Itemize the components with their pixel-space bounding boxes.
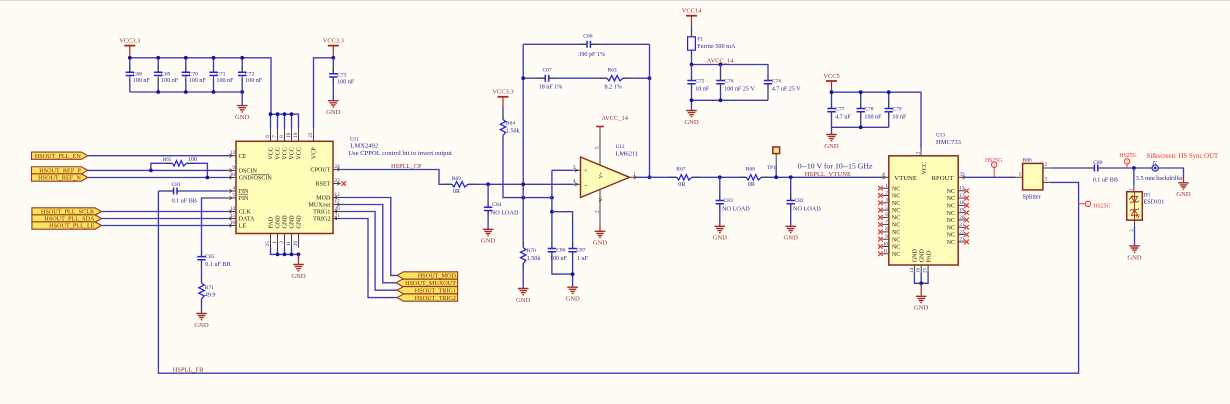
svg-text:26: 26 — [293, 241, 299, 247]
ground cap bank — [241, 92, 243, 106]
svg-text:GND: GND — [283, 215, 289, 229]
svg-text:R67: R67 — [676, 167, 685, 173]
svg-text:C67: C67 — [543, 67, 552, 73]
svg-text:VCC5: VCC5 — [823, 73, 839, 80]
pin 3 GND — [284, 234, 286, 248]
svg-text:LMX2492: LMX2492 — [350, 142, 378, 149]
svg-text:GND: GND — [1127, 254, 1142, 261]
pin 9 NC left — [882, 238, 889, 240]
svg-text:RSET: RSET — [315, 182, 330, 188]
svg-text:R70: R70 — [527, 248, 536, 254]
svg-text:D5: D5 — [1143, 192, 1150, 198]
wire RFOUT — [965, 176, 1015, 178]
pin 23 RSET no-connect X — [341, 181, 346, 186]
port HS25G out — [1124, 159, 1129, 164]
svg-text:NO LOAD: NO LOAD — [793, 206, 821, 213]
svg-text:CLK: CLK — [239, 210, 252, 216]
resistor R67 — [677, 175, 692, 180]
node vcc bus — [283, 112, 287, 116]
svg-text:C77: C77 — [835, 107, 844, 113]
pin 23 RSET — [333, 183, 341, 185]
node fb right — [648, 76, 652, 80]
wire J7 shield — [1158, 168, 1183, 177]
pin 13 NC right — [958, 190, 965, 192]
ground AVCC — [686, 111, 697, 117]
svg-text:CE: CE — [239, 154, 247, 160]
svg-text:100 nF: 100 nF — [133, 78, 151, 84]
svg-text:HMC733: HMC733 — [936, 139, 962, 146]
port HSOUT_MUXOUT — [396, 279, 458, 286]
power AVCC_14 opamp — [599, 127, 601, 129]
pin 9 OSCIN — [229, 169, 237, 171]
svg-text:23: 23 — [335, 178, 341, 184]
wire vcc pin — [270, 114, 272, 129]
svg-text:22: 22 — [959, 230, 965, 235]
pin 16 LE — [229, 225, 237, 227]
svg-text:GND: GND — [276, 215, 282, 229]
svg-text:100 nF: 100 nF — [550, 256, 568, 262]
svg-text:1.50k: 1.50k — [506, 128, 521, 134]
svg-text:VCC: VCC — [269, 147, 275, 160]
svg-text:NC: NC — [892, 194, 900, 200]
svg-text:VCC3.3: VCC3.3 — [323, 37, 344, 44]
ferrite F1 — [688, 37, 696, 50]
svg-text:R69: R69 — [452, 176, 461, 182]
capacitor C85 — [197, 257, 205, 260]
pin 10 NC left — [882, 246, 889, 248]
capacitor C74 — [764, 81, 772, 84]
power VCC14 — [686, 15, 697, 17]
svg-text:C79: C79 — [892, 107, 901, 113]
wire HSPLL_CP — [341, 170, 452, 185]
port HSOUT_TRIG2 — [397, 294, 458, 301]
ground C83 — [715, 226, 726, 232]
svg-text:0.1 uF BB: 0.1 uF BB — [205, 262, 230, 268]
wire TRIG2 net — [341, 219, 398, 298]
pin 14 GND bottom — [913, 265, 915, 272]
svg-text:C75: C75 — [695, 79, 704, 85]
capacitor C79 — [888, 92, 890, 108]
ESD diode D5 — [1133, 168, 1135, 186]
wire vcc pin — [291, 114, 293, 129]
svg-text:1.50k: 1.50k — [527, 256, 542, 262]
svg-text:GND/OSCIN: GND/OSCIN — [239, 176, 273, 182]
ground U13 — [920, 283, 922, 296]
svg-text:1: 1 — [272, 241, 278, 244]
svg-text:Splitter: Splitter — [1023, 193, 1041, 200]
svg-text:NC: NC — [892, 186, 900, 192]
svg-text:1: 1 — [1087, 202, 1089, 207]
svg-text:1 uF: 1 uF — [577, 256, 589, 262]
pin 4 inverting — [574, 183, 581, 185]
svg-text:HSOUT_TRIG1: HSOUT_TRIG1 — [415, 287, 456, 294]
svg-text:390 pF 1%: 390 pF 1% — [578, 52, 605, 58]
node REF_N junction — [206, 176, 210, 180]
wire feedback left vertical — [522, 44, 524, 247]
svg-text:16: 16 — [230, 220, 236, 226]
pin 15 DATA — [229, 218, 237, 220]
node C87 branch — [550, 210, 554, 214]
svg-text:HSPLL_FB: HSPLL_FB — [173, 366, 204, 373]
node AVCC C75 — [690, 63, 694, 67]
svg-text:21: 21 — [959, 223, 965, 228]
capacitor C86 — [548, 249, 556, 252]
svg-text:17: 17 — [335, 199, 341, 205]
wire U11 gnd bus — [271, 248, 299, 259]
pin 6 VCC — [270, 129, 272, 142]
wire HSOUT_REF_P to OSCIN — [88, 169, 229, 171]
svg-text:NC: NC — [947, 189, 955, 195]
node bottom bus — [184, 90, 188, 94]
svg-text:GND: GND — [593, 240, 608, 247]
svg-text:TRIG1: TRIG1 — [313, 210, 330, 216]
svg-text:VCC: VCC — [283, 147, 289, 160]
svg-text:9: 9 — [232, 165, 235, 171]
pin 11 NC left — [882, 253, 889, 255]
svg-text:MUXout: MUXout — [308, 203, 330, 209]
svg-text:V+: V+ — [598, 172, 604, 179]
node AVCC C76 — [719, 63, 723, 67]
svg-text:GND: GND — [913, 248, 919, 262]
svg-text:GND: GND — [919, 248, 925, 262]
connector J7 3.5mm — [1152, 165, 1158, 171]
pin 13 CE — [229, 155, 237, 157]
svg-text:NC: NC — [947, 218, 955, 224]
svg-text:NC: NC — [892, 201, 900, 207]
svg-text:NC: NC — [892, 216, 900, 222]
svg-text:Use CPPOL control bit to inver: Use CPPOL control bit to invert output — [348, 150, 452, 157]
pin 4 FIN — [229, 190, 237, 192]
svg-text:25: 25 — [924, 268, 929, 274]
op-amp U12 LM6211 — [581, 157, 630, 198]
svg-text:HSOUT_TRIG2: HSOUT_TRIG2 — [415, 295, 456, 302]
svg-text:HSPLL_VTUNE: HSPLL_VTUNE — [805, 171, 851, 178]
svg-text:C70: C70 — [189, 71, 198, 77]
svg-text:C84: C84 — [492, 202, 501, 208]
power VCC3.3 R64 — [498, 96, 509, 98]
node bottom C75 — [690, 98, 694, 102]
pin 12 MOD — [333, 197, 341, 199]
IC U11 LMX2492 — [236, 141, 333, 233]
node bottom C76 — [719, 98, 723, 102]
svg-text:HS25G: HS25G — [1119, 153, 1136, 159]
svg-text:GND: GND — [914, 305, 929, 312]
svg-text:0R: 0R — [453, 189, 461, 195]
svg-text:0.1 uF BB: 0.1 uF BB — [1093, 177, 1118, 183]
svg-text:15: 15 — [230, 213, 236, 219]
wire SDA — [102, 218, 229, 220]
svg-text:GND: GND — [481, 238, 496, 245]
svg-text:19: 19 — [293, 132, 299, 138]
pin 3 noninverting — [574, 169, 581, 171]
svg-text:100 nF: 100 nF — [161, 78, 179, 84]
resistor R63 — [607, 76, 623, 81]
svg-text:GND: GND — [194, 322, 209, 329]
pin 24 CPOUT — [333, 169, 341, 171]
svg-text:NC: NC — [947, 196, 955, 202]
resistor R68 — [746, 175, 761, 180]
svg-text:1: 1 — [1126, 159, 1128, 164]
ground R71 — [196, 313, 207, 319]
svg-text:F1: F1 — [697, 37, 703, 43]
wire gnd pin — [291, 248, 293, 255]
svg-text:VCC: VCC — [290, 147, 296, 160]
svg-text:1: 1 — [1019, 171, 1022, 177]
capacitor C69 — [157, 58, 159, 73]
node C84 tap — [486, 182, 490, 186]
wire HSPLL_FB — [158, 182, 1078, 373]
node gnd bus — [290, 253, 294, 257]
wire C87 branch — [552, 212, 573, 249]
svg-text:GND: GND — [235, 114, 250, 121]
svg-text:NC: NC — [947, 211, 955, 217]
node vcc bus — [290, 112, 294, 116]
node C86/C87 join — [571, 272, 575, 276]
wire plus input — [552, 169, 574, 171]
node top bus — [156, 56, 160, 60]
resistor R64 — [500, 120, 505, 136]
svg-text:6: 6 — [265, 135, 271, 138]
svg-text:VCC14: VCC14 — [682, 8, 702, 15]
wire VCC5 bus — [832, 92, 922, 149]
capacitor C68 — [129, 58, 131, 73]
svg-text:C86: C86 — [556, 247, 565, 253]
svg-text:FIN: FIN — [239, 196, 249, 202]
svg-text:4.7 uF: 4.7 uF — [835, 115, 851, 121]
svg-text:U11: U11 — [350, 136, 359, 142]
pin 8 NC left — [882, 231, 889, 233]
wire VCC5 bottom bus — [832, 127, 889, 134]
ground R70 — [518, 289, 529, 295]
port HS25G fb — [1079, 203, 1086, 205]
svg-text:18: 18 — [286, 132, 292, 138]
svg-text:24: 24 — [335, 164, 341, 170]
svg-text:VCC: VCC — [297, 147, 303, 160]
port HSOUT_REF_N — [32, 174, 88, 181]
wire SCLK — [102, 211, 229, 213]
component pin leads overlay — [130, 31, 1105, 305]
wire VCP branch — [314, 58, 334, 129]
svg-text:18: 18 — [959, 201, 965, 206]
node bottom bus — [156, 90, 160, 94]
power VCC3.3 left — [124, 45, 135, 47]
pin 15 RFOUT — [958, 176, 965, 178]
svg-text:100 nF: 100 nF — [864, 115, 882, 121]
wire F1 out — [691, 50, 693, 64]
svg-text:C87: C87 — [576, 247, 585, 253]
capacitor C80 — [1094, 165, 1097, 172]
node vcc bus — [269, 112, 273, 116]
svg-text:VCC: VCC — [922, 162, 928, 175]
svg-text:NC: NC — [892, 237, 900, 243]
svg-text:NC: NC — [947, 240, 955, 246]
node bottom bus — [240, 90, 244, 94]
svg-text:PAD: PAD — [926, 250, 932, 262]
svg-text:23: 23 — [959, 238, 965, 243]
svg-text:4: 4 — [882, 172, 885, 178]
wire splitter out2 — [1050, 167, 1095, 169]
svg-text:R66: R66 — [1023, 158, 1032, 164]
ground C82 — [785, 226, 796, 232]
pin 21 TRIG2 — [333, 218, 341, 220]
pin 10 GND/OSCIN — [229, 177, 237, 179]
svg-text:3.5 mm backdrilled: 3.5 mm backdrilled — [1136, 175, 1185, 182]
pin 25 PAD — [270, 234, 272, 248]
svg-text:10 nF: 10 nF — [892, 115, 907, 121]
wire vcc3.3 top bus — [130, 58, 271, 114]
pin 1 GND — [277, 234, 279, 248]
svg-text:18 nF 1%: 18 nF 1% — [539, 85, 563, 91]
wire HSOUT_PLL_EN to CE — [88, 155, 229, 157]
pin 20 TRIG1 — [333, 211, 341, 213]
svg-text:10: 10 — [230, 172, 236, 178]
pin 6 NC left — [882, 216, 889, 218]
wire D5 gnd — [1134, 226, 1136, 246]
svg-text:C73: C73 — [337, 73, 346, 79]
svg-text:8.2 1%: 8.2 1% — [605, 85, 622, 91]
wire gnd pin — [277, 248, 279, 255]
svg-text:VCC3.3: VCC3.3 — [119, 37, 140, 44]
svg-text:U12: U12 — [616, 144, 625, 150]
pin 2 NC left — [882, 195, 889, 197]
svg-text:NC: NC — [947, 204, 955, 210]
svg-text:LE: LE — [239, 224, 247, 230]
svg-text:19: 19 — [959, 209, 965, 214]
svg-text:GND: GND — [1176, 191, 1191, 198]
svg-text:C82: C82 — [795, 198, 804, 204]
node REF_P junction — [149, 169, 153, 173]
svg-text:13: 13 — [230, 150, 236, 156]
capacitor C78 — [860, 92, 862, 108]
svg-text:NO LOAD: NO LOAD — [722, 206, 750, 213]
overline GND/OSCIN — [251, 173, 270, 175]
pin 16 GND bottom — [920, 265, 922, 272]
svg-text:100 nF 25 V: 100 nF 25 V — [724, 87, 755, 93]
port HSOUT_PLL_SCLK — [32, 208, 102, 215]
svg-text:R64: R64 — [506, 120, 515, 126]
svg-text:V-: V- — [598, 196, 604, 201]
node fb left — [521, 76, 525, 80]
node minus input tap — [521, 182, 525, 186]
capacitor C75 — [691, 65, 693, 81]
svg-text:C85: C85 — [205, 254, 214, 260]
svg-text:5: 5 — [595, 146, 601, 149]
capacitor C84 NO LOAD — [487, 184, 489, 207]
svg-text:RFOUT: RFOUT — [932, 175, 954, 182]
svg-text:R71: R71 — [205, 285, 214, 291]
svg-text:C72: C72 — [245, 71, 254, 77]
pin 18 NC right — [958, 204, 965, 206]
svg-text:CPOUT: CPOUT — [310, 168, 330, 174]
power VCC3.3 right — [328, 45, 339, 47]
wire MOD net — [341, 198, 398, 276]
pin 25 PAD bottom — [927, 265, 929, 272]
capacitor C70 — [185, 58, 187, 73]
svg-text:U13: U13 — [936, 132, 945, 138]
svg-text:NC: NC — [892, 252, 900, 258]
pin 17 MUXout — [333, 204, 341, 206]
svg-text:10 nF: 10 nF — [695, 87, 710, 93]
svg-text:HS25G: HS25G — [1093, 204, 1110, 210]
svg-text:NC: NC — [892, 223, 900, 229]
wire MUXOUT net — [341, 205, 397, 283]
pin 22 VCP — [313, 129, 315, 142]
svg-text:2: 2 — [1044, 162, 1047, 168]
svg-text:HSOUT_PLL_EN: HSOUT_PLL_EN — [35, 153, 82, 160]
resistor R71 — [199, 283, 204, 299]
svg-text:100 nF: 100 nF — [189, 78, 207, 84]
node bottom bus — [212, 90, 216, 94]
wire vcc pin — [284, 114, 286, 129]
svg-text:4.7 uF 25 V: 4.7 uF 25 V — [772, 87, 802, 93]
svg-text:C71: C71 — [216, 71, 225, 77]
splitter R66 — [1023, 163, 1043, 190]
svg-text:20: 20 — [959, 216, 965, 221]
pin 20 NC right — [958, 219, 965, 221]
svg-text:C83: C83 — [724, 198, 733, 204]
node vcc5 bus — [859, 90, 863, 94]
node C82 tap — [789, 175, 793, 179]
svg-text:R63: R63 — [608, 67, 617, 73]
svg-text:AVCC_14: AVCC_14 — [601, 115, 628, 122]
svg-text:VCP: VCP — [312, 147, 318, 159]
ground U11 — [298, 254, 300, 264]
pin 1 output — [630, 176, 638, 178]
pin 1 splitter — [1016, 176, 1023, 178]
resistor R69 — [452, 182, 468, 187]
svg-text:VCC: VCC — [276, 147, 282, 160]
svg-text:HSOUT_MUXOUT: HSOUT_MUXOUT — [405, 280, 456, 287]
node vcc5 bus — [830, 90, 834, 94]
capacitor C76 — [720, 65, 722, 81]
pin 7 NC left — [882, 224, 889, 226]
ground C86 C87 — [567, 287, 578, 293]
IC U13 HMC733 — [889, 156, 958, 265]
svg-text:3: 3 — [573, 164, 576, 170]
node vcc bus — [276, 112, 280, 116]
svg-text:17: 17 — [959, 194, 965, 199]
svg-text:VCC3.3: VCC3.3 — [492, 89, 513, 96]
wire opamp out — [637, 176, 677, 178]
node R64/fb — [521, 196, 525, 200]
svg-text:2: 2 — [595, 210, 601, 213]
wire U13 gnd bus — [914, 272, 928, 283]
svg-text:GND: GND — [713, 235, 728, 242]
svg-text:GND: GND — [290, 215, 296, 229]
svg-text:GND: GND — [684, 119, 699, 126]
pin 19 VCC — [298, 129, 300, 142]
svg-text:4: 4 — [232, 186, 235, 192]
svg-text:21: 21 — [335, 213, 341, 219]
node output/fb — [648, 175, 652, 179]
svg-text:TRIG2: TRIG2 — [313, 217, 330, 223]
svg-text:14: 14 — [910, 268, 915, 274]
svg-text:3: 3 — [279, 241, 285, 244]
svg-text:11: 11 — [883, 250, 888, 255]
svg-text:12: 12 — [335, 192, 341, 198]
svg-text:LM6211: LM6211 — [616, 150, 639, 157]
pin 11 GND — [291, 234, 293, 248]
svg-text:NC: NC — [892, 230, 900, 236]
svg-text:GND: GND — [784, 235, 799, 242]
svg-text:100: 100 — [188, 157, 197, 163]
svg-text:GND: GND — [297, 215, 303, 229]
wire HSOUT_REF_N to GND/OSCIN — [88, 177, 229, 179]
pin 22 NC right — [958, 234, 965, 236]
pin 21 NC right — [958, 226, 965, 228]
pin 14 CLK — [229, 211, 237, 213]
node VCC3.3 right — [331, 56, 335, 60]
